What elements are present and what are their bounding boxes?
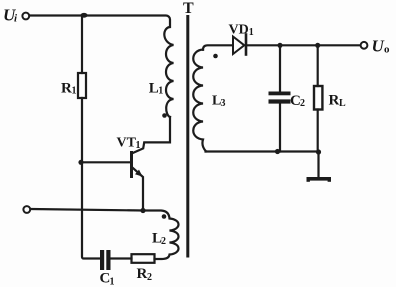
svg-text:VT: VT: [117, 136, 137, 151]
svg-text:1: 1: [249, 27, 254, 38]
svg-text:L: L: [339, 98, 346, 109]
svg-text:R: R: [61, 81, 72, 97]
svg-text:T: T: [183, 0, 194, 17]
svg-text:o: o: [384, 43, 390, 55]
svg-text:R: R: [329, 93, 340, 109]
svg-text:VD: VD: [229, 23, 249, 38]
svg-text:1: 1: [158, 86, 163, 97]
svg-text:1: 1: [110, 277, 115, 287]
svg-text:2: 2: [147, 272, 152, 283]
svg-text:1: 1: [136, 140, 141, 151]
svg-text:R: R: [137, 266, 148, 282]
svg-text:1: 1: [72, 86, 77, 97]
svg-text:2: 2: [161, 236, 166, 247]
svg-text:3: 3: [221, 98, 226, 109]
svg-text:i: i: [14, 13, 18, 25]
svg-text:U: U: [372, 37, 385, 56]
svg-text:2: 2: [300, 98, 305, 109]
